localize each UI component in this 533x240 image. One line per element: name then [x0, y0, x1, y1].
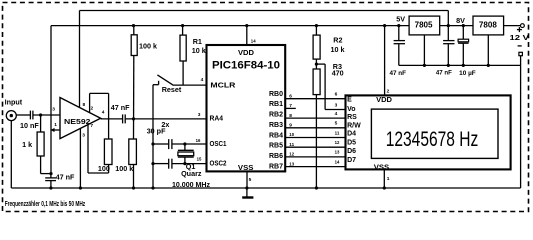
- svg-text:5: 5: [249, 177, 252, 183]
- svg-text:Quarz: Quarz: [181, 169, 202, 178]
- svg-text:Reset: Reset: [162, 85, 182, 94]
- svg-text:3: 3: [198, 112, 201, 118]
- svg-text:3: 3: [52, 107, 55, 113]
- svg-text:10 nF: 10 nF: [20, 121, 39, 130]
- svg-text:100 k: 100 k: [139, 41, 157, 50]
- svg-text:13: 13: [335, 150, 340, 156]
- svg-text:11: 11: [335, 130, 340, 136]
- svg-text:RB7: RB7: [269, 163, 283, 170]
- svg-text:12345678 Hz: 12345678 Hz: [386, 128, 479, 151]
- svg-text:15: 15: [197, 156, 202, 162]
- svg-text:1: 1: [387, 176, 390, 182]
- svg-text:E: E: [347, 97, 352, 104]
- svg-text:100 k: 100 k: [115, 164, 133, 173]
- svg-text:VDD: VDD: [376, 95, 392, 104]
- svg-text:NE592: NE592: [64, 117, 91, 126]
- svg-text:RB0: RB0: [269, 91, 283, 98]
- svg-text:7: 7: [289, 103, 292, 109]
- svg-text:30 pF: 30 pF: [147, 126, 166, 135]
- svg-text:MCLR: MCLR: [210, 80, 236, 89]
- svg-text:10.000 MHz: 10.000 MHz: [172, 180, 210, 189]
- svg-text:8: 8: [289, 113, 292, 119]
- svg-text:7805: 7805: [415, 21, 433, 30]
- svg-text:2: 2: [387, 89, 390, 95]
- svg-text:10 µF: 10 µF: [459, 70, 476, 77]
- svg-text:12 V: 12 V: [510, 33, 530, 42]
- svg-text:RB6: RB6: [269, 153, 283, 160]
- svg-text:R2: R2: [333, 35, 342, 44]
- svg-text:7: 7: [90, 123, 93, 129]
- svg-text:7808: 7808: [479, 21, 497, 30]
- svg-text:1 k: 1 k: [22, 140, 32, 149]
- svg-text:4: 4: [201, 77, 204, 83]
- svg-text:6: 6: [289, 93, 292, 99]
- svg-text:470: 470: [332, 69, 344, 78]
- svg-text:OSC2: OSC2: [210, 159, 227, 168]
- svg-text:D6: D6: [347, 148, 356, 155]
- svg-text:100: 100: [98, 164, 110, 173]
- svg-text:D7: D7: [347, 157, 356, 164]
- svg-text:8V: 8V: [456, 16, 465, 25]
- svg-text:3: 3: [335, 102, 338, 108]
- svg-text:8: 8: [83, 102, 86, 108]
- svg-text:2: 2: [91, 106, 94, 112]
- svg-text:RB2: RB2: [269, 112, 283, 119]
- svg-text:RB3: RB3: [269, 122, 283, 129]
- svg-text:D4: D4: [347, 131, 356, 138]
- svg-text:RB4: RB4: [269, 132, 283, 139]
- svg-text:D5: D5: [347, 140, 356, 147]
- svg-text:14: 14: [251, 38, 256, 44]
- svg-text:11: 11: [289, 142, 294, 148]
- svg-text:Input: Input: [5, 97, 23, 106]
- svg-text:12: 12: [289, 152, 294, 158]
- svg-text:R/W: R/W: [347, 122, 361, 129]
- svg-text:4: 4: [335, 111, 338, 117]
- svg-text:9: 9: [289, 123, 292, 129]
- svg-text:6: 6: [335, 92, 338, 98]
- svg-text:PIC16F84-10: PIC16F84-10: [212, 60, 280, 72]
- svg-text:14: 14: [335, 159, 340, 165]
- svg-text:47 nF: 47 nF: [436, 70, 452, 77]
- svg-text:47 nF: 47 nF: [56, 172, 75, 181]
- svg-text:10: 10: [289, 132, 294, 138]
- svg-text:RA4: RA4: [210, 113, 224, 122]
- svg-text:10 k: 10 k: [192, 46, 206, 55]
- svg-text:VSS: VSS: [374, 163, 390, 172]
- svg-text:R1: R1: [193, 37, 202, 46]
- svg-text:16: 16: [196, 138, 201, 144]
- svg-text:RB5: RB5: [269, 143, 283, 150]
- svg-text:13: 13: [289, 161, 294, 167]
- svg-text:47 nF: 47 nF: [390, 70, 407, 77]
- svg-text:Frequenzzähler 0,1 MHz bis 50: Frequenzzähler 0,1 MHz bis 50 MHz: [5, 199, 86, 208]
- svg-text:10 k: 10 k: [331, 45, 345, 54]
- svg-text:OSC1: OSC1: [210, 139, 227, 148]
- svg-text:5V: 5V: [396, 15, 405, 24]
- svg-text:4: 4: [102, 109, 105, 115]
- svg-text:RS: RS: [347, 114, 357, 121]
- svg-text:VSS: VSS: [238, 163, 254, 172]
- svg-text:RB1: RB1: [269, 101, 283, 108]
- svg-text:1: 1: [54, 122, 57, 128]
- svg-text:12: 12: [335, 140, 340, 146]
- svg-text:VDD: VDD: [238, 48, 255, 57]
- svg-text:3: 3: [82, 133, 85, 139]
- svg-text:5: 5: [335, 121, 338, 127]
- svg-text:Vo: Vo: [347, 106, 355, 113]
- svg-text:47 nF: 47 nF: [111, 103, 130, 112]
